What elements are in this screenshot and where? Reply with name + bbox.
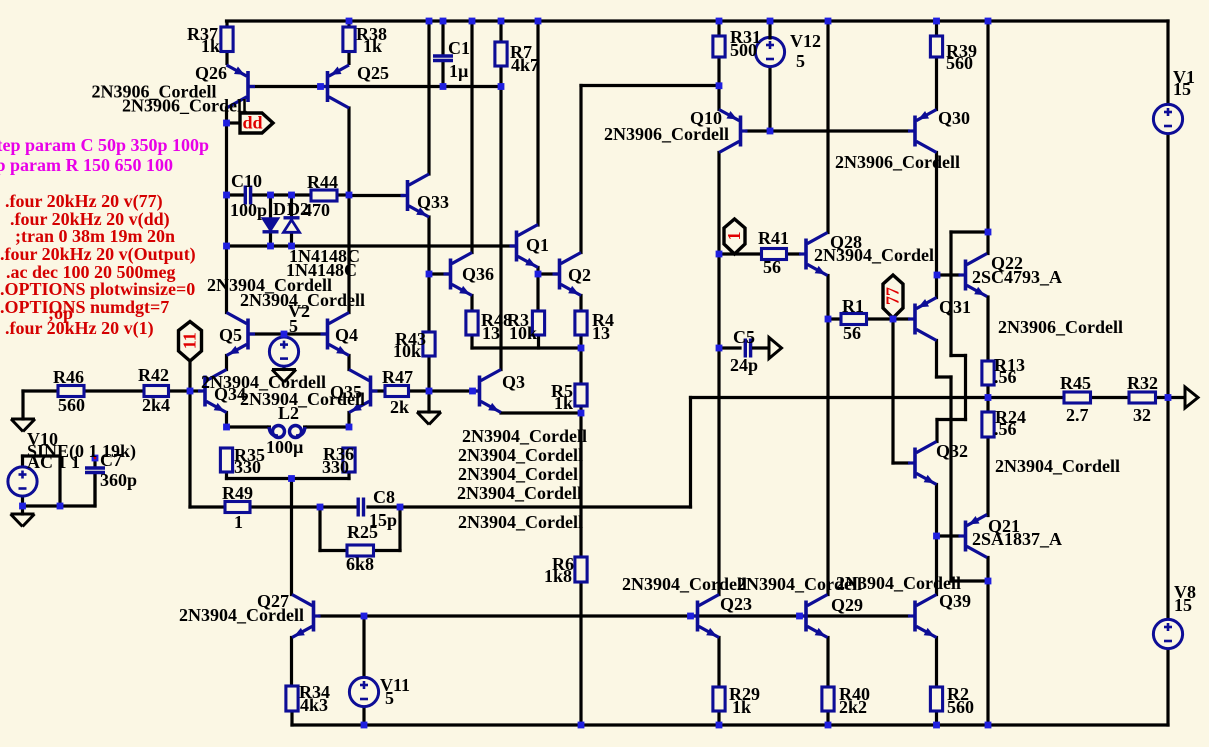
- junction Q23 base pin: [687, 613, 694, 620]
- svg-text:11: 11: [180, 332, 200, 349]
- wire V- bottom rail: [292, 723, 1168, 726]
- svg-text:dd: dd: [243, 113, 263, 133]
- resistor R46: [58, 386, 84, 397]
- svg-text:56: 56: [843, 323, 861, 343]
- wire x581 drop to R6: [579, 413, 582, 557]
- svg-text:1: 1: [234, 512, 243, 532]
- svg-text:L2: L2: [278, 403, 299, 423]
- svg-text:R42: R42: [138, 365, 169, 385]
- resistor R49: [225, 502, 250, 513]
- junction input node: [187, 388, 194, 395]
- wire Q21 base stub: [937, 534, 959, 537]
- resistor R47: [385, 386, 409, 397]
- wire R25 bracket right: [374, 507, 401, 551]
- wire VAS column x719: [717, 153, 720, 595]
- svg-text:1k8: 1k8: [544, 566, 572, 586]
- svg-text:.56: .56: [994, 367, 1017, 387]
- capacitor C1: [433, 21, 453, 87]
- wire Q31 collector staircase: [937, 341, 989, 582]
- resistor R41: [762, 249, 787, 260]
- wire Q35 emitter to L2 node: [347, 413, 350, 428]
- transistor Q30: [908, 110, 937, 153]
- junction Q21 collector link: [985, 578, 992, 585]
- junction rail R38: [346, 18, 353, 25]
- junction Q22 base node: [934, 272, 941, 279]
- svg-text:2N3906_Cordell: 2N3906_Cordell: [604, 124, 729, 144]
- wire input node to Q34 base: [190, 389, 200, 392]
- junction R31 cascode feed: [716, 82, 723, 89]
- junction rail R7: [498, 18, 505, 25]
- wire Q4 emitter to Q35 collector: [347, 356, 350, 370]
- wire degeneration riser to Q27: [290, 479, 293, 595]
- junction output rails: [1165, 394, 1172, 401]
- svg-text:C1: C1: [448, 38, 470, 58]
- junction rail x581: [578, 722, 585, 729]
- transistor Q29: [799, 595, 828, 638]
- svg-text:C10: C10: [231, 171, 262, 191]
- svg-text:13: 13: [482, 323, 500, 343]
- junction C10 left: [223, 192, 230, 199]
- wire R2 bottom: [935, 711, 938, 725]
- wire Q36 emitter to R48: [470, 296, 473, 312]
- svg-text:.OPTIONS plotwinsize=0: .OPTIONS plotwinsize=0: [0, 279, 195, 299]
- junction D1 bottom: [267, 243, 274, 250]
- wire V+ right drop to V1: [1166, 21, 1169, 105]
- svg-text:2N3906_Cordell: 2N3906_Cordell: [835, 152, 960, 172]
- svg-text:C7: C7: [100, 450, 122, 470]
- wire V8 bottom lead: [1166, 648, 1169, 725]
- wire Q28 emitter drop: [826, 276, 829, 320]
- wire R29 bottom: [717, 711, 720, 725]
- junction rail V11: [361, 722, 368, 729]
- transistor Q31: [908, 298, 937, 341]
- wire R42 to input node: [169, 389, 191, 392]
- wire R35 bottom to R36 bottom: [227, 472, 350, 479]
- svg-text:1k: 1k: [363, 36, 382, 56]
- net flag 11: [179, 322, 202, 362]
- wire R13 bottom: [986, 385, 989, 398]
- junction L2 left: [223, 424, 230, 431]
- svg-text:2N3904_Cordel: 2N3904_Cordel: [458, 464, 578, 484]
- wire R49 right: [250, 505, 358, 508]
- voltage source V1: [1153, 104, 1182, 133]
- junction R4 R5 node: [578, 345, 585, 352]
- junction rail R39: [933, 18, 940, 25]
- junction Q29 base pin: [796, 613, 803, 620]
- svg-text:Q5: Q5: [219, 325, 242, 345]
- diode D2: [284, 195, 300, 246]
- transistor Q5: [227, 313, 256, 356]
- voltage source V2: [269, 337, 298, 366]
- resistor R43: [423, 332, 435, 356]
- svg-text:2N3904_Cordell: 2N3904_Cordell: [457, 483, 582, 503]
- wire bottom bus to C7: [23, 475, 96, 507]
- svg-text:2k: 2k: [390, 397, 409, 417]
- resistor R39: [930, 21, 942, 57]
- resistor R35: [220, 448, 232, 472]
- junction Q36 base node: [426, 271, 433, 278]
- wire R41 to Q28 base: [787, 252, 800, 255]
- svg-text:4k7: 4k7: [511, 55, 539, 75]
- wire R24 to Q21 emitter: [986, 437, 989, 516]
- svg-text:15: 15: [1173, 79, 1191, 99]
- wire x936 to Q39 collector: [935, 536, 938, 595]
- svg-text:2.7: 2.7: [1066, 405, 1089, 425]
- voltage source V10: [8, 467, 37, 496]
- wire Q30 collector drop to Q31: [935, 153, 938, 298]
- wire Q26 collector drop: [225, 108, 228, 246]
- voltage source V8: [1153, 619, 1182, 648]
- junction L2 right: [346, 424, 353, 431]
- wire Q29 emitter to R40: [826, 638, 829, 688]
- svg-text:560: 560: [947, 697, 974, 717]
- transistor Q25: [321, 65, 350, 108]
- svg-text:5: 5: [796, 51, 805, 71]
- voltage source V11: [349, 677, 378, 706]
- resistor R25: [347, 545, 374, 556]
- transistor Q22: [959, 254, 988, 297]
- resistor R1: [841, 314, 867, 325]
- wire Q2 emitter to R4: [579, 296, 582, 312]
- svg-text:10k: 10k: [393, 341, 421, 361]
- wire Q10 Q30 base bus: [747, 129, 908, 132]
- svg-text:13: 13: [592, 323, 610, 343]
- wire R7 column to Q3 collector: [499, 87, 502, 370]
- resistor R48: [466, 311, 478, 335]
- wire Q3 emitter bus: [501, 411, 581, 414]
- wire C8 right to feedback riser: [368, 505, 691, 508]
- wire R40 bottom: [826, 711, 829, 725]
- svg-text:56: 56: [763, 257, 781, 277]
- resistor R42: [144, 386, 169, 397]
- svg-text:R25: R25: [347, 522, 378, 542]
- junction C10 right D1: [267, 192, 274, 199]
- wire V12 bottom drop: [768, 66, 771, 131]
- svg-text:R47: R47: [382, 367, 413, 387]
- resistor R34: [286, 686, 298, 711]
- wire L2 right lead: [307, 425, 349, 428]
- wire input node down to R49: [190, 391, 225, 507]
- svg-text:Q31: Q31: [939, 297, 971, 317]
- svg-text:Q39: Q39: [939, 591, 971, 611]
- resistor R3: [532, 311, 544, 335]
- junction lower bus left: [223, 243, 230, 250]
- transistor Q3: [473, 370, 502, 413]
- junction V11 node: [361, 613, 368, 620]
- ground R43: [417, 412, 441, 425]
- svg-text:1k: 1k: [201, 36, 220, 56]
- junction V12 base bus: [767, 128, 774, 135]
- svg-text:2SA1837_A: 2SA1837_A: [972, 529, 1062, 549]
- wire Q5 collector up: [225, 246, 228, 313]
- resistor R2: [930, 687, 942, 711]
- transistor Q23: [691, 595, 720, 638]
- wire R43 bottom to ground node: [427, 356, 430, 412]
- svg-text:2k2: 2k2: [839, 697, 867, 717]
- svg-text:330: 330: [322, 457, 349, 477]
- wire x828 drop to Q29 collector: [826, 319, 829, 595]
- junction C8 right node: [397, 504, 404, 511]
- junction rail R29: [716, 722, 723, 729]
- wire Q28 collector riser: [826, 21, 829, 233]
- svg-text:560: 560: [946, 53, 973, 73]
- wire R31 bottom to Q10: [717, 57, 720, 110]
- wire R32 to V rails node: [1156, 396, 1169, 399]
- net flag 1: [724, 219, 745, 254]
- wire Q25 collector drop: [347, 108, 350, 313]
- ground input: [11, 419, 35, 432]
- resistor R4: [575, 311, 587, 335]
- junction R43 bottom: [426, 388, 433, 395]
- svg-text:2SC4793_A: 2SC4793_A: [972, 267, 1062, 287]
- junction D2 bottom: [288, 243, 295, 250]
- wire R5 bottom: [579, 406, 582, 413]
- svg-text:R41: R41: [758, 228, 789, 248]
- resistor R24: [982, 412, 994, 437]
- resistor R5: [575, 384, 587, 406]
- transistor Q39: [908, 595, 937, 638]
- svg-text:R32: R32: [1127, 373, 1158, 393]
- junction R1 left: [825, 316, 832, 323]
- wire Q33 emitter to R43: [427, 217, 430, 332]
- wire V8 top lead: [1166, 398, 1169, 621]
- capacitor C8: [358, 498, 363, 517]
- wire V2 top lead: [282, 334, 285, 338]
- svg-text:5: 5: [289, 316, 298, 336]
- ground V2: [272, 370, 296, 383]
- wire Q35 base to R47: [372, 389, 385, 392]
- transistor Q26: [227, 65, 256, 108]
- wire R47 to Q3 base: [409, 389, 477, 392]
- wire R41 left lead: [719, 252, 759, 255]
- svg-text:32: 32: [1133, 405, 1151, 425]
- wire Q23 emitter to R29: [717, 638, 720, 688]
- wire R44 junction to Q33 base: [349, 194, 403, 197]
- svg-text:R49: R49: [222, 483, 253, 503]
- svg-text:2N3904_Cordell: 2N3904_Cordell: [458, 445, 583, 465]
- wire V1 to output node: [1166, 133, 1169, 398]
- junction node 77: [890, 316, 897, 323]
- svg-text:1µ: 1µ: [449, 61, 469, 81]
- wire R24 top: [986, 398, 989, 413]
- svg-text:2k4: 2k4: [142, 395, 170, 415]
- wire R25 bracket left: [320, 507, 347, 551]
- wire V10 ground stub: [21, 506, 24, 514]
- wire Q27 emitter to R34: [290, 638, 293, 687]
- wire Q34 emitter to L2 node: [225, 413, 228, 428]
- resistor R40: [822, 687, 834, 711]
- svg-text:C5: C5: [733, 327, 755, 347]
- junction rail x988: [985, 18, 992, 25]
- wire flag11 riser: [188, 361, 191, 391]
- wire node77 drop to Q32 base: [893, 319, 908, 463]
- wire C10 left link: [227, 193, 246, 196]
- svg-text:Q32: Q32: [936, 441, 968, 461]
- svg-text:AC 1 1: AC 1 1: [27, 452, 80, 472]
- wire diff base bus y334: [250, 332, 325, 335]
- wire link to bias ladder: [937, 232, 988, 442]
- resistor R13: [982, 361, 994, 385]
- wire V12 top lead: [768, 21, 771, 38]
- svg-text:Q3: Q3: [502, 372, 525, 392]
- wire V11 bottom lead: [362, 706, 365, 725]
- wire feedback riser to output: [689, 398, 692, 508]
- wire V+ top rail: [227, 19, 1169, 22]
- svg-text:R45: R45: [1060, 373, 1091, 393]
- svg-text:330: 330: [234, 457, 261, 477]
- wire V10 bottom: [21, 496, 24, 506]
- wire lower mirror bus y246: [227, 244, 516, 247]
- wire input left to ground: [23, 391, 58, 419]
- junction degeneration mid: [288, 475, 295, 482]
- svg-text:4k3: 4k3: [300, 695, 328, 715]
- resistor R37: [221, 21, 233, 65]
- wire mirror base bus y86: [251, 85, 501, 88]
- junction bias link: [985, 229, 992, 236]
- resistor R44: [311, 190, 337, 201]
- svg-text:2N3904_Cordell: 2N3904_Cordell: [462, 426, 587, 446]
- svg-text:Q4: Q4: [335, 325, 358, 345]
- svg-text:V12: V12: [790, 31, 821, 51]
- junction R44 right: [346, 192, 353, 199]
- svg-text:Q33: Q33: [417, 192, 449, 212]
- resistor R6: [575, 557, 587, 582]
- transistor Q21: [959, 515, 988, 558]
- svg-text:1k: 1k: [732, 697, 751, 717]
- wire dd flag stub: [228, 121, 240, 124]
- junction rail V12: [767, 18, 774, 25]
- output flag C5: [752, 338, 782, 359]
- junction rail C1: [440, 18, 447, 25]
- node marker C7 top: [92, 455, 99, 462]
- svg-text:Q25: Q25: [357, 63, 389, 83]
- resistor R7: [495, 21, 507, 87]
- wire R1 right lead: [867, 317, 894, 320]
- wire Q2 collector riser: [581, 86, 719, 253]
- svg-text:2N3904_Cordell: 2N3904_Cordell: [179, 605, 304, 625]
- wire Q39 emitter to R2: [935, 638, 938, 688]
- wire R1 left lead: [828, 317, 841, 320]
- svg-text:77: 77: [883, 287, 903, 305]
- junction R41 node: [716, 251, 723, 258]
- wire R6 to V- rail: [579, 582, 582, 725]
- svg-text:Q26: Q26: [195, 63, 227, 83]
- junction R5 bottom node: [578, 410, 585, 417]
- wire V10 top loop: [23, 456, 61, 506]
- junction rail x828: [825, 18, 832, 25]
- transistor Q2: [553, 253, 582, 296]
- svg-text:2N3904_Cordell: 2N3904_Cordell: [737, 574, 862, 594]
- wire V11 top lead: [362, 616, 365, 678]
- wire R45 to R32: [1091, 396, 1130, 399]
- wire L2 left lead: [227, 425, 268, 428]
- resistor R36: [343, 448, 355, 472]
- junction dd node: [223, 120, 230, 127]
- svg-text:1k: 1k: [554, 393, 573, 413]
- junction rail R2: [933, 722, 940, 729]
- wire R44 right link: [337, 193, 349, 196]
- wire node77 to Q31 base: [893, 317, 908, 320]
- junction diff base V2: [281, 331, 288, 338]
- svg-text:R44: R44: [307, 172, 338, 192]
- junction C5 node: [716, 345, 723, 352]
- svg-text:.four 20kHz 20 v(1): .four 20kHz 20 v(1): [5, 318, 154, 339]
- svg-text:500: 500: [730, 40, 757, 60]
- wire output line: [691, 396, 1065, 399]
- diode D1: [263, 195, 279, 246]
- transistor Q4: [321, 313, 350, 356]
- capacitor C7: [85, 459, 105, 506]
- junction base bus C1: [440, 83, 447, 90]
- wire Q2 base link: [538, 272, 556, 275]
- wire R4 to R5: [579, 335, 582, 384]
- svg-text:24p: 24p: [730, 355, 758, 375]
- transistor Q33: [401, 174, 430, 217]
- svg-text:Q23: Q23: [720, 594, 752, 614]
- wire R3 top lead: [536, 274, 539, 311]
- svg-text:2N3904_Cordell: 2N3904_Cordell: [995, 456, 1120, 476]
- transistor Q1: [510, 225, 539, 268]
- junction rail x538: [535, 18, 542, 25]
- wire V2 bottom lead: [282, 366, 285, 370]
- svg-text:Q30: Q30: [938, 108, 970, 128]
- svg-text:15: 15: [1174, 595, 1192, 615]
- voltage source V12: [755, 37, 784, 66]
- wire Q22 base stub: [937, 273, 958, 276]
- ground V10: [11, 514, 35, 527]
- junction V10 minus: [19, 503, 26, 510]
- net flag dd: [240, 113, 273, 134]
- resistor R32: [1129, 392, 1156, 403]
- inductor L2: [267, 426, 307, 438]
- svg-text:2N3904_Cordell: 2N3904_Cordell: [458, 512, 583, 532]
- wire Q5 emitter to Q34 collector: [225, 356, 228, 370]
- svg-text:470: 470: [303, 200, 330, 220]
- wire rail drop to Q33 collector: [427, 21, 430, 174]
- svg-text:.step param R 150 650 100: .step param R 150 650 100: [0, 155, 173, 175]
- wire Q32 emitter drop: [935, 485, 938, 537]
- junction base bus R7: [498, 83, 505, 90]
- wire rail drop x538 to Q1 collector: [536, 21, 539, 225]
- svg-text:.step param C 50p 350p 100p: .step param C 50p 350p 100p: [0, 135, 209, 155]
- svg-text:.56: .56: [994, 419, 1017, 439]
- svg-text:;tran 0 38m 19m 20n: ;tran 0 38m 19m 20n: [15, 226, 175, 246]
- svg-text:C8: C8: [373, 487, 395, 507]
- svg-text:.OPTIONS numdgt=7: .OPTIONS numdgt=7: [0, 297, 169, 317]
- wire x988 rail drop: [986, 21, 989, 232]
- transistor Q32: [908, 442, 937, 485]
- junction base bus Q25 pin: [317, 83, 324, 90]
- wire R46 to R42: [84, 389, 144, 392]
- wire Q22 collector lead: [986, 232, 989, 254]
- svg-text:2N3904_Cordel: 2N3904_Cordel: [814, 245, 934, 265]
- transistor Q28: [799, 233, 828, 276]
- junction output R13 R24: [985, 394, 992, 401]
- wire R34 to V- rail: [290, 711, 293, 725]
- output flag Out: [1168, 387, 1198, 408]
- junction rail x472: [469, 18, 476, 25]
- svg-text:10k: 10k: [509, 323, 537, 343]
- svg-text:2N3904_Cordell: 2N3904_Cordell: [622, 574, 747, 594]
- svg-text:6k8: 6k8: [346, 554, 374, 574]
- wire Q21 collector drop: [986, 558, 989, 726]
- wire C5 left lead: [719, 346, 740, 349]
- svg-text:2N3906_Cordell: 2N3906_Cordell: [998, 317, 1123, 337]
- svg-text:Q2: Q2: [568, 265, 591, 285]
- svg-text:Q34: Q34: [214, 384, 246, 404]
- capacitor C5: [745, 339, 750, 358]
- wire rail drop x472 to Q36 collector: [470, 21, 473, 253]
